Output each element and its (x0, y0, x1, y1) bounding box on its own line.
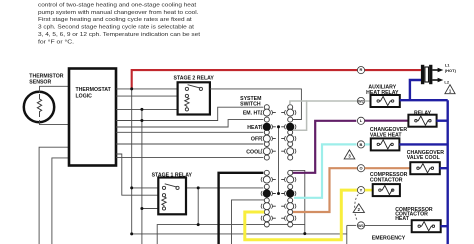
svg-text:HEAT: HEAT (395, 216, 410, 222)
wire logic to EM HT bottom contact (116, 120, 263, 127)
wire logic to stage2 contact (116, 88, 186, 90)
wire stage1 junction drop (197, 188, 199, 225)
svg-text:First stage heating and coolin: First stage heating and cooling cycle ra… (38, 17, 192, 23)
svg-text:CONTACTOR: CONTACTOR (370, 177, 403, 183)
stub W2 to aux relay (365, 100, 371, 102)
svg-text:SENSOR: SENSOR (29, 79, 51, 85)
stub Y to coil (365, 189, 373, 192)
changeover valve cool coil (371, 138, 444, 161)
lower closed contacts (263, 189, 271, 197)
svg-text:Y: Y (360, 188, 363, 193)
svg-text:HEAT: HEAT (247, 125, 262, 131)
wire gray W2 (293, 101, 357, 130)
svg-text:control of two-stage heating a: control of two-stage heating and one-sta… (38, 2, 197, 8)
wire navy aux to bus (400, 99, 448, 101)
terminal W2 (357, 97, 364, 104)
wire navy cool coil link (399, 143, 448, 145)
compressor contactor coil (370, 162, 440, 183)
svg-text:STAGE 2 RELAY: STAGE 2 RELAY (174, 76, 215, 82)
wire vertical bus A (131, 89, 133, 234)
wire lower row8 run (157, 225, 305, 244)
wire W1 leg down (346, 225, 348, 244)
stub W1 to coil (365, 224, 412, 226)
svg-text:COOL: COOL (246, 149, 262, 155)
svg-text:O: O (359, 166, 362, 171)
wire logic to stage2 coil bottom (116, 108, 178, 110)
wire filled contact drop (232, 200, 265, 244)
wire logic left lower 2 (52, 158, 69, 244)
wire stage2 output to EM HT right (210, 89, 302, 120)
wire navy relay link (436, 119, 447, 121)
stub B to coil (365, 143, 371, 145)
terminal Y (357, 187, 364, 194)
wire gray W2 branch to top contact (290, 101, 307, 105)
svg-text:W1: W1 (358, 223, 365, 228)
wire orange O (293, 168, 357, 212)
stage 1 relay K1 (152, 172, 193, 214)
wire logic left lower 1 (39, 147, 69, 244)
wire logic to stage1 coil top (116, 154, 158, 195)
wire navy transformer drop (410, 80, 421, 100)
svg-text:LOGIC: LOGIC (76, 94, 93, 100)
system switch lower contacts right column (287, 170, 294, 227)
system switch upper contacts left column (263, 105, 270, 160)
compressor contactor heat coil (W1) (395, 207, 441, 232)
junction dots (130, 87, 306, 235)
wire thermistor bottom to logic (40, 120, 70, 125)
svg-text:OFF: OFF (251, 137, 261, 143)
wire navy w1 coil link (441, 225, 448, 227)
changeover valve heat relay coil (370, 111, 437, 139)
stub L to relay (365, 120, 409, 122)
contact wiper arc marks (261, 110, 296, 220)
wire W1 left (347, 224, 356, 226)
svg-text:VALVE COOL: VALVE COOL (407, 155, 441, 161)
svg-text:EMERGENCY: EMERGENCY (372, 236, 406, 242)
wire logic to off row contact (116, 143, 263, 145)
thermistor sensor RT (24, 74, 64, 123)
note triangle 3 (344, 150, 355, 159)
wire navy compressor link (440, 167, 448, 169)
switch linkage dashes lower (273, 180, 285, 219)
wire stage1 coil bottom feed (142, 208, 158, 210)
svg-text:(HOT): (HOT) (445, 68, 457, 73)
note triangle 1 (445, 85, 455, 94)
wire purple L (293, 121, 356, 173)
svg-text:SWITCH: SWITCH (240, 102, 261, 108)
wire cyan B (294, 144, 357, 197)
wire stage1 contact feed (132, 187, 159, 189)
svg-text:THERMOSTAT: THERMOSTAT (76, 87, 112, 93)
description text (38, 2, 200, 45)
terminal W1 (357, 222, 364, 229)
svg-text:L1: L1 (445, 63, 450, 68)
auxiliary heat relay coil (366, 84, 400, 107)
dashed link Y to W1 (355, 195, 359, 222)
wire bottom run from bus A (132, 233, 347, 235)
wire logic to heat row contact (116, 131, 263, 133)
wire vertical bus B (141, 109, 143, 244)
transformer T1 (421, 65, 443, 84)
svg-text:3, 4, 5, 6, 9 or 12 cph. Tempe: 3, 4, 5, 6, 9 or 12 cph. Temperature ind… (38, 32, 200, 38)
terminal B (357, 141, 364, 148)
svg-text:W2: W2 (358, 98, 365, 103)
compressor contactor cool coil (Y) (373, 184, 400, 196)
svg-text:R: R (360, 67, 363, 72)
svg-text:STAGE 1 RELAY: STAGE 1 RELAY (152, 172, 193, 178)
wire red R power (132, 70, 358, 89)
terminal L (357, 117, 364, 124)
svg-text:L2: L2 (444, 79, 449, 84)
wire logic to EM HT top contact (116, 107, 263, 120)
svg-text:for °F or °C.: for °F or °C. (38, 40, 74, 46)
wire red R to transformer (365, 69, 421, 71)
note triangle 2 (353, 204, 364, 213)
wire logic to stage2 coil top (116, 95, 178, 97)
svg-text:B: B (360, 142, 363, 147)
svg-text:EM. HT.: EM. HT. (243, 111, 262, 117)
wire thermistor top to logic (40, 86, 70, 93)
thermostat logic U1 (69, 69, 116, 166)
wire lower contact loop (291, 170, 305, 233)
wire logic to cool row contact (116, 157, 263, 159)
stub O to coil (365, 167, 411, 169)
system switch labels (240, 96, 262, 155)
terminal R (357, 67, 364, 74)
svg-text:pump system with manual change: pump system with manual changeover from … (38, 10, 199, 16)
wire thick black heat feed (219, 173, 264, 244)
system switch lower contacts left column (263, 170, 270, 227)
switch linkage dashes upper (273, 113, 285, 152)
system switch upper contacts right column (287, 105, 294, 160)
label L1 HOT (444, 63, 456, 85)
wire yellow Y (245, 190, 358, 240)
svg-text:3 cph. Second stage heating cy: 3 cph. Second stage heating cycle rate i… (38, 25, 194, 31)
heat position closed contacts (263, 123, 271, 131)
terminal O (357, 165, 364, 172)
switch common vertical link (278, 127, 280, 194)
stage 2 relay K2 (174, 76, 215, 115)
wire navy bus (447, 100, 449, 244)
wire stage1 output to lower contact (186, 187, 263, 189)
